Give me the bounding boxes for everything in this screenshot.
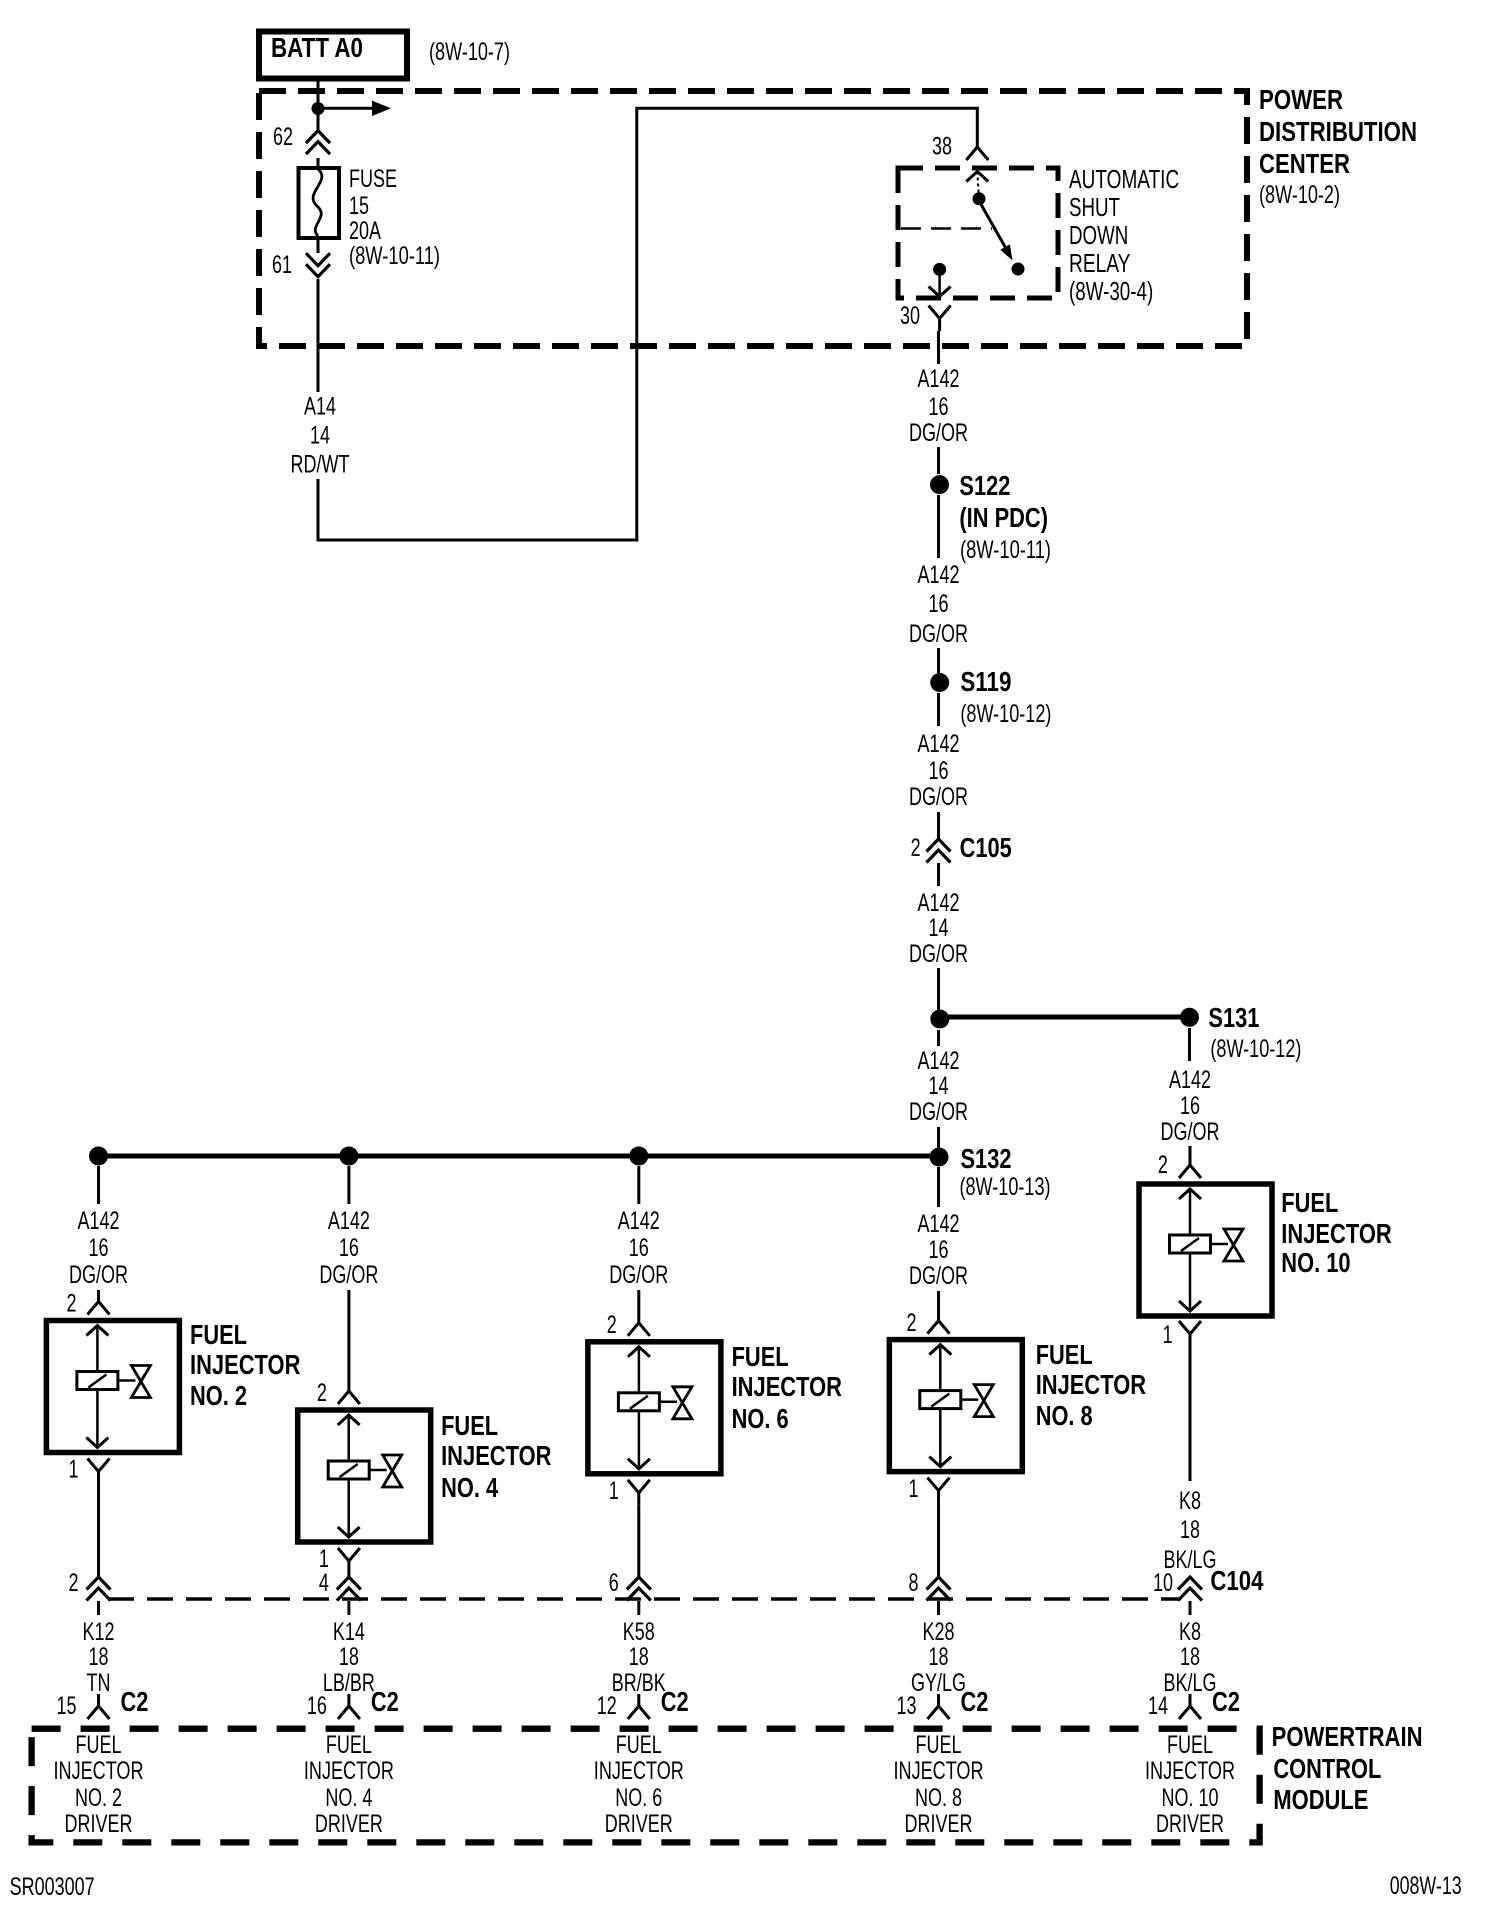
svg-text:RELAY: RELAY [1069, 248, 1130, 278]
svg-text:A142: A142 [918, 889, 960, 917]
svg-text:8: 8 [909, 1569, 919, 1597]
svg-text:S132: S132 [961, 1143, 1012, 1174]
svg-text:INJECTOR: INJECTOR [594, 1757, 684, 1785]
wire A14 down from fuse [317, 279, 320, 392]
svg-text:(IN PDC): (IN PDC) [959, 502, 1048, 533]
svg-text:CENTER: CENTER [1259, 148, 1350, 179]
svg-text:4: 4 [319, 1569, 329, 1597]
svg-text:14: 14 [929, 914, 949, 942]
svg-text:2: 2 [911, 834, 921, 862]
fuel injector NO. 10 arrow down [1179, 1301, 1201, 1311]
svg-text:NO. 4: NO. 4 [325, 1784, 372, 1812]
relay contact node 2 [1012, 263, 1025, 276]
fuel injector NO. 8 arrow down [929, 1457, 951, 1467]
svg-text:K28: K28 [923, 1618, 955, 1646]
svg-text:10: 10 [1153, 1569, 1173, 1597]
svg-text:A142: A142 [918, 730, 960, 758]
svg-text:DG/OR: DG/OR [909, 620, 968, 648]
svg-text:DG/OR: DG/OR [69, 1261, 128, 1289]
svg-text:2: 2 [67, 1290, 77, 1318]
svg-text:NO. 6: NO. 6 [732, 1403, 789, 1434]
injector 10 pin 2 [1189, 1146, 1192, 1165]
node bus splice dot injector NO. 2 [89, 1147, 108, 1166]
svg-text:14: 14 [310, 422, 330, 450]
svg-text:TN: TN [87, 1669, 111, 1697]
svg-text:61: 61 [272, 251, 292, 279]
svg-text:16: 16 [307, 1692, 327, 1720]
wire bus stub NO. 2 [97, 1166, 100, 1204]
svg-text:DISTRIBUTION: DISTRIBUTION [1259, 116, 1417, 147]
svg-text:BATT A0: BATT A0 [271, 32, 363, 63]
splice S122 [930, 475, 949, 494]
svg-text:30: 30 [900, 302, 920, 330]
svg-text:(8W-10-11): (8W-10-11) [960, 536, 1051, 564]
fuel injector NO. 2 arrow down [86, 1438, 108, 1448]
fuel injector NO. 6 box [588, 1342, 721, 1474]
svg-text:(8W-10-12): (8W-10-12) [1210, 1035, 1301, 1063]
svg-text:A142: A142 [918, 365, 960, 393]
wire [937, 812, 940, 839]
svg-text:(8W-10-2): (8W-10-2) [1259, 181, 1340, 209]
svg-text:1: 1 [69, 1456, 79, 1484]
svg-text:A142: A142 [78, 1207, 120, 1235]
relay pin 30 arrow down [938, 275, 941, 297]
wire bus stub NO. 6 [637, 1166, 640, 1204]
svg-text:DRIVER: DRIVER [315, 1810, 383, 1838]
svg-text:FUEL: FUEL [326, 1731, 372, 1759]
arrow feed to other circuits [318, 107, 374, 110]
svg-text:A14: A14 [304, 393, 336, 421]
svg-text:16: 16 [929, 590, 949, 618]
svg-text:A142: A142 [918, 561, 960, 589]
wire below junction [937, 1030, 940, 1046]
svg-text:C2: C2 [371, 1686, 399, 1717]
wire [937, 1127, 940, 1148]
svg-text:INJECTOR: INJECTOR [1145, 1757, 1235, 1785]
fuel injector NO. 10 internal wire [1189, 1189, 1192, 1235]
fuel injector NO. 2 internal wire [96, 1326, 99, 1372]
svg-text:INJECTOR: INJECTOR [190, 1349, 300, 1380]
node battery junction dot [312, 102, 325, 115]
wire below S119 [937, 693, 940, 726]
svg-text:62: 62 [273, 123, 293, 151]
svg-text:16: 16 [629, 1234, 649, 1262]
wire bus stub NO. 4 [347, 1166, 350, 1204]
svg-text:INJECTOR: INJECTOR [441, 1440, 551, 1471]
wire relay to A142 [937, 331, 940, 364]
fuel injector NO. 2 coil [77, 1372, 118, 1390]
svg-text:18: 18 [89, 1643, 109, 1671]
fuel injector NO. 2 arrow up [86, 1326, 108, 1336]
relay pin 30 node [933, 263, 946, 276]
wire 62 to fuse [317, 158, 320, 169]
svg-text:FUEL: FUEL [1281, 1187, 1338, 1218]
svg-text:1: 1 [1163, 1321, 1173, 1349]
svg-text:2: 2 [1158, 1151, 1168, 1179]
node bus splice dot injector NO. 4 [339, 1147, 358, 1166]
svg-text:DRIVER: DRIVER [1156, 1810, 1224, 1838]
svg-text:A142: A142 [328, 1207, 370, 1235]
svg-text:RD/WT: RD/WT [291, 451, 350, 479]
wire [937, 968, 940, 1010]
svg-text:DRIVER: DRIVER [65, 1810, 133, 1838]
svg-text:16: 16 [1180, 1092, 1200, 1120]
svg-text:20A: 20A [349, 217, 381, 245]
svg-text:(8W-10-7): (8W-10-7) [429, 38, 510, 66]
wire top horizontal to relay [635, 107, 979, 110]
svg-text:16: 16 [89, 1234, 109, 1262]
svg-text:(8W-30-4): (8W-30-4) [1069, 276, 1153, 306]
fuel injector NO. 10 valve [1211, 1243, 1229, 1246]
svg-text:NO. 2: NO. 2 [75, 1784, 122, 1812]
fuel injector NO. 6 valve [659, 1401, 677, 1404]
svg-text:FUEL: FUEL [441, 1410, 498, 1441]
svg-text:K8: K8 [1179, 1487, 1201, 1515]
svg-text:A142: A142 [918, 1047, 960, 1075]
injector NO. 2 pin 2 [97, 1290, 100, 1302]
svg-text:DG/OR: DG/OR [319, 1261, 378, 1289]
svg-text:INJECTOR: INJECTOR [732, 1371, 842, 1402]
svg-text:BR/BK: BR/BK [612, 1669, 666, 1697]
fuel injector NO. 4 box [298, 1410, 431, 1542]
wire inj8 to C104 [937, 1503, 940, 1577]
svg-text:DG/OR: DG/OR [909, 940, 968, 968]
svg-text:16: 16 [929, 1236, 949, 1264]
svg-text:FUEL: FUEL [190, 1319, 247, 1350]
svg-text:NO. 2: NO. 2 [190, 1380, 247, 1411]
wire [937, 447, 940, 474]
injector NO. 4 pin 2 [347, 1290, 350, 1391]
svg-text:K14: K14 [333, 1618, 365, 1646]
injector 8 pin 2 [937, 1291, 940, 1321]
svg-text:18: 18 [629, 1643, 649, 1671]
fuel injector NO. 6 internal wire [638, 1347, 641, 1393]
svg-text:15: 15 [349, 192, 369, 220]
node bus splice dot injector NO. 6 [629, 1147, 648, 1166]
wire down to relay pin 38 [976, 107, 979, 147]
fuel injector NO. 8 coil [920, 1391, 961, 1409]
svg-text:18: 18 [929, 1643, 949, 1671]
relay contact arrow from pin 38 [966, 172, 988, 182]
svg-text:NO. 10: NO. 10 [1281, 1247, 1350, 1278]
fuel injector NO. 8 box [889, 1340, 1022, 1472]
svg-text:INJECTOR: INJECTOR [1036, 1369, 1146, 1400]
svg-text:2: 2 [607, 1311, 617, 1339]
injector NO. 6 pin 2 [637, 1290, 640, 1323]
fuel injector NO. 4 arrow up [338, 1415, 360, 1425]
fuel injector NO. 6 arrow down [628, 1459, 650, 1469]
svg-text:POWER: POWER [1259, 84, 1343, 115]
svg-text:18: 18 [339, 1643, 359, 1671]
wire NO. 4 pin1 to C104 [347, 1573, 350, 1577]
svg-text:GY/LG: GY/LG [911, 1669, 966, 1697]
svg-text:DG/OR: DG/OR [909, 1262, 968, 1290]
fuel injector NO. 8 valve [961, 1398, 979, 1401]
svg-text:A142: A142 [1169, 1066, 1211, 1094]
splice S119 [930, 673, 949, 692]
svg-text:16: 16 [929, 393, 949, 421]
wire K8 [1189, 1346, 1192, 1481]
wire below S122 [937, 495, 940, 558]
svg-text:FUEL: FUEL [1167, 1731, 1213, 1759]
wire riser up [635, 108, 638, 541]
svg-text:(8W-10-12): (8W-10-12) [960, 700, 1051, 728]
svg-text:K12: K12 [83, 1618, 115, 1646]
svg-text:1: 1 [609, 1477, 619, 1505]
svg-text:DG/OR: DG/OR [909, 419, 968, 447]
svg-text:FUEL: FUEL [76, 1731, 122, 1759]
svg-text:S131: S131 [1208, 1002, 1259, 1033]
fuel injector NO. 8 internal wire [939, 1345, 942, 1391]
fuel injector NO. 4 internal wire [347, 1415, 350, 1461]
splice S131 [1180, 1008, 1199, 1027]
fuel injector NO. 2 valve [118, 1379, 135, 1382]
svg-text:NO. 8: NO. 8 [915, 1784, 962, 1812]
svg-text:INJECTOR: INJECTOR [894, 1757, 984, 1785]
svg-text:DRIVER: DRIVER [605, 1810, 673, 1838]
fuel injector NO. 4 arrow down [338, 1527, 360, 1537]
svg-text:FUEL: FUEL [616, 1731, 662, 1759]
wire A14 down to corner [317, 479, 320, 542]
svg-text:14: 14 [929, 1072, 949, 1100]
svg-text:12: 12 [597, 1692, 617, 1720]
svg-text:AUTOMATIC: AUTOMATIC [1069, 164, 1179, 194]
svg-text:INJECTOR: INJECTOR [1281, 1218, 1391, 1249]
wire below S131 [1188, 1028, 1191, 1061]
svg-text:NO. 4: NO. 4 [441, 1472, 498, 1503]
svg-text:C2: C2 [961, 1686, 989, 1717]
svg-text:2: 2 [69, 1569, 79, 1597]
svg-text:14: 14 [1148, 1692, 1168, 1720]
svg-text:2: 2 [907, 1309, 917, 1337]
svg-text:SR003007: SR003007 [10, 1873, 95, 1901]
svg-text:DOWN: DOWN [1069, 220, 1128, 250]
svg-text:CONTROL: CONTROL [1273, 1753, 1381, 1784]
svg-text:(8W-10-13): (8W-10-13) [960, 1173, 1051, 1201]
svg-text:1: 1 [909, 1475, 919, 1503]
svg-text:C2: C2 [661, 1686, 689, 1717]
fuel injector NO. 10 arrow up [1179, 1189, 1201, 1199]
svg-text:18: 18 [1180, 1643, 1200, 1671]
svg-text:C2: C2 [121, 1686, 149, 1717]
svg-text:15: 15 [57, 1692, 77, 1720]
svg-text:FUSE: FUSE [349, 165, 397, 193]
relay contact node [973, 192, 986, 205]
svg-text:008W-13: 008W-13 [1390, 1872, 1462, 1900]
relay switch arm [981, 204, 1009, 253]
wire BATT to junction [317, 81, 320, 131]
automatic shut down relay dashed box [898, 168, 1058, 298]
bus wire from S132 to injectors [97, 1154, 939, 1159]
svg-text:C104: C104 [1210, 1565, 1263, 1596]
svg-text:K58: K58 [623, 1618, 655, 1646]
svg-text:K8: K8 [1179, 1618, 1201, 1646]
svg-text:INJECTOR: INJECTOR [54, 1757, 144, 1785]
fuel injector NO. 10 coil [1170, 1235, 1211, 1253]
relay contact bar dashed [901, 227, 992, 230]
svg-text:38: 38 [932, 133, 952, 161]
svg-text:DG/OR: DG/OR [909, 1098, 968, 1126]
splice S132 [930, 1148, 949, 1167]
svg-text:C2: C2 [1212, 1686, 1240, 1717]
svg-text:NO. 6: NO. 6 [615, 1784, 662, 1812]
svg-text:A142: A142 [618, 1207, 660, 1235]
svg-text:DG/OR: DG/OR [909, 783, 968, 811]
svg-text:LB/BR: LB/BR [323, 1669, 375, 1697]
svg-text:DG/OR: DG/OR [609, 1261, 668, 1289]
svg-text:C105: C105 [960, 832, 1012, 863]
svg-text:INJECTOR: INJECTOR [304, 1757, 394, 1785]
node junction to S131 [930, 1010, 949, 1029]
svg-text:13: 13 [897, 1692, 917, 1720]
connector C104 dashed line [108, 1597, 1180, 1601]
wire NO. 6 pin1 to C104 [637, 1505, 640, 1577]
svg-text:POWERTRAIN: POWERTRAIN [1272, 1721, 1423, 1752]
svg-text:A142: A142 [918, 1210, 960, 1238]
fuel injector NO. 4 valve [369, 1469, 387, 1472]
svg-text:FUEL: FUEL [732, 1341, 789, 1372]
svg-text:FUEL: FUEL [1036, 1339, 1093, 1370]
svg-text:BK/LG: BK/LG [1164, 1669, 1217, 1697]
svg-text:MODULE: MODULE [1273, 1784, 1368, 1815]
fuel injector NO. 6 arrow up [628, 1347, 650, 1357]
fuel injector NO. 8 arrow up [929, 1345, 951, 1355]
fuel injector NO. 6 coil [618, 1393, 659, 1411]
svg-text:FUEL: FUEL [916, 1731, 962, 1759]
battery feed box BATT A0 [259, 32, 407, 79]
svg-text:DG/OR: DG/OR [1161, 1118, 1220, 1146]
wire junction to S131 [948, 1015, 1181, 1020]
svg-text:NO. 10: NO. 10 [1162, 1784, 1219, 1812]
fuel injector NO. 10 box [1139, 1184, 1272, 1316]
wire [937, 648, 940, 673]
svg-text:NO. 8: NO. 8 [1036, 1400, 1093, 1431]
svg-text:S122: S122 [959, 470, 1010, 501]
svg-text:16: 16 [339, 1234, 359, 1262]
svg-text:18: 18 [1180, 1516, 1200, 1544]
wire below S132 [937, 1167, 940, 1207]
fuel injector NO. 2 box [46, 1321, 179, 1453]
svg-text:2: 2 [317, 1379, 327, 1407]
wire NO. 2 pin1 to C104 [97, 1484, 100, 1578]
svg-text:6: 6 [609, 1569, 619, 1597]
wire below C105 [937, 863, 940, 886]
power distribution center dashed box [259, 91, 1247, 346]
svg-text:SHUT: SHUT [1069, 192, 1120, 222]
svg-text:S119: S119 [960, 666, 1011, 697]
powertrain control module dashed box [32, 1729, 1260, 1843]
svg-text:16: 16 [929, 757, 949, 785]
svg-text:DRIVER: DRIVER [905, 1810, 973, 1838]
fuse 15 20A [299, 168, 340, 238]
svg-text:(8W-10-11): (8W-10-11) [349, 242, 440, 270]
fuel injector NO. 4 coil [328, 1461, 369, 1479]
wire horizontal to riser [317, 539, 639, 542]
